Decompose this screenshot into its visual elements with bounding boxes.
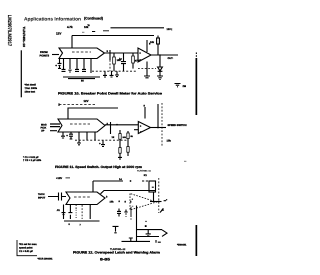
capacitor C8 series input — [48, 193, 66, 201]
wire output fig2 — [151, 127, 167, 129]
wire output drop — [159, 55, 161, 67]
capacitor C13 — [146, 230, 151, 236]
node 12V label — [84, 99, 89, 103]
svg-text:C1 = 0.01 μF: C1 = 0.01 μF — [19, 250, 34, 253]
ground under op-amp — [144, 62, 150, 78]
node dots right of vertical — [145, 221, 146, 222]
wire output — [151, 54, 178, 56]
node right marks — [156, 240, 161, 243]
wire dashed bottom boundary — [75, 139, 128, 141]
wire charge pump output riser fig3 — [101, 191, 157, 194]
svg-text:LM2907/LM2917: LM2907/LM2917 — [6, 15, 12, 47]
wire right vertical — [157, 104, 159, 128]
wire pin stubs under charge pump — [64, 59, 92, 74]
node pin 3 label — [107, 50, 109, 53]
resistor R1 value 470 — [67, 25, 73, 29]
resistor R9 — [117, 209, 121, 217]
capacitor C9 — [62, 213, 66, 215]
capacitor C14 stub — [129, 238, 133, 242]
wire rail drop to charge pump — [71, 36, 73, 49]
wire horn bottom — [137, 236, 160, 238]
wire rail fig3 — [93, 180, 123, 182]
horn LS1 arrow — [162, 230, 167, 237]
wire mid node vertical — [109, 50, 111, 60]
op-amp U1B — [138, 48, 151, 62]
transistor Q1 arrow — [160, 209, 164, 213]
svg-text:INPUT: INPUT — [38, 196, 46, 199]
node output junction — [159, 54, 161, 56]
charge pump U1A — [59, 48, 105, 59]
node output label — [168, 57, 174, 60]
svg-text:12V: 12V — [84, 99, 89, 103]
relay K1 — [144, 174, 148, 177]
svg-text:+: + — [55, 64, 57, 68]
op-amp U3B dashed — [130, 194, 157, 211]
resistor R4 — [113, 53, 115, 57]
wire dashed boundary right segment — [138, 68, 156, 70]
resistor R3 pull-up — [157, 36, 159, 39]
node V+ label 12V — [56, 32, 61, 36]
wire V+ rail — [72, 35, 154, 37]
svg-text:FIGURE 12. Overspeed Latch and: FIGURE 12. Overspeed Latch and Warning A… — [73, 251, 160, 255]
wire pin stubs fig3 — [64, 205, 91, 220]
wire input — [52, 54, 59, 56]
wire op-amp supply drop — [144, 107, 146, 119]
capacitor C11 — [124, 210, 127, 217]
ground output — [157, 76, 163, 80]
svg-text:+12V: +12V — [56, 177, 62, 180]
ground stub C below boundary — [115, 71, 119, 76]
svg-text:···: ··· — [184, 160, 187, 163]
svg-text:SPEED SWITCH: SPEED SWITCH — [168, 124, 187, 127]
capacitor C1 input — [55, 64, 57, 68]
svg-text:POINTS: POINTS — [40, 55, 50, 58]
wire inverting input stub fig2 — [134, 129, 138, 131]
wire pin stubs fig2 — [79, 132, 95, 140]
svg-text:···: ··· — [82, 31, 85, 34]
svg-text:OUT·: OUT· — [168, 57, 174, 60]
ground bus fig3 — [64, 220, 100, 222]
svg-text:10k: 10k — [167, 140, 172, 143]
magnetic pickup PU1 — [41, 123, 47, 132]
ground pin2 — [68, 70, 71, 72]
node half designator — [88, 24, 91, 27]
resistor R6 chain — [119, 130, 121, 134]
svg-text:UP: UP — [41, 129, 45, 132]
diode D1 — [158, 67, 163, 71]
capacitor C5 — [121, 53, 126, 71]
wire dashed boundary fig3 — [158, 178, 160, 213]
node input label POINTS — [40, 51, 50, 58]
svg-text:(Continued): (Continued) — [84, 17, 104, 21]
wire charge pump output — [105, 52, 139, 54]
resistor R5 — [132, 53, 134, 56]
wire relay drop — [153, 192, 155, 202]
node 12V label fig3 — [56, 177, 62, 180]
svg-text:FIGURE 11. Speed Switch. Outpu: FIGURE 11. Speed Switch. Output High at … — [55, 165, 142, 169]
capacitor C4 on pin — [82, 69, 86, 71]
svg-text:4.7k: 4.7k — [67, 25, 73, 29]
wire lower vertical — [136, 206, 138, 242]
resistor R8 value — [167, 140, 172, 143]
wire bottom line — [122, 240, 151, 242]
svg-text:10k: 10k — [84, 26, 89, 29]
svg-text:‡See text: ‡See text — [25, 91, 36, 94]
charge pump U2A — [58, 119, 105, 132]
note table border fig3 — [17, 240, 37, 256]
wire dashed boundary right — [161, 103, 163, 147]
wire output node fig3 — [150, 201, 162, 203]
node output label fig2 — [168, 124, 187, 127]
ground pin fig2 — [77, 140, 81, 145]
wire solid rail — [68, 108, 118, 119]
svg-text:8-85: 8-85 — [100, 258, 110, 262]
change bar upper — [196, 58, 198, 115]
capacitor C7 polarized — [66, 134, 68, 138]
wire rail drop — [92, 181, 94, 192]
wire output stub fig3 — [164, 200, 166, 202]
wire dashed top rail — [59, 104, 95, 106]
svg-text:FIGURE 10. Breaker Point Dwell: FIGURE 10. Breaker Point Dwell Meter for… — [58, 92, 162, 96]
capacitor C12 electrolytic — [113, 226, 119, 232]
wire dashed IC boundary segment — [92, 70, 137, 72]
capacitor C10 — [68, 213, 72, 219]
wire op-amp supply — [146, 40, 148, 52]
op-amp U2B — [138, 122, 150, 134]
ground bus — [63, 77, 100, 79]
svg-text:10k: 10k — [110, 201, 115, 204]
node plus mark — [99, 142, 101, 146]
wire upper rail fig1 — [82, 31, 85, 34]
wire charge pump output fig2 — [105, 124, 138, 126]
resistor R7 chain — [127, 131, 129, 133]
capacitor C6 to ground — [61, 132, 65, 138]
node figure tag fig3 — [110, 248, 126, 251]
svg-text:*2N4441: *2N4441 — [177, 244, 187, 247]
ground stub B below boundary — [110, 71, 114, 77]
wire mid vertical fig2 — [110, 122, 112, 134]
change bar lower — [196, 225, 198, 256]
ground stub A below boundary — [103, 71, 107, 77]
node labels row fig3 — [110, 200, 133, 204]
svg-text:Applications Information: Applications Information — [24, 17, 81, 23]
svg-text:TL/H/7451–10: TL/H/7451–10 — [22, 27, 26, 48]
node input label fig3 — [38, 193, 46, 199]
ground mid fig2 — [101, 140, 105, 146]
wire inverting stub fig3 — [130, 207, 132, 217]
svg-text:10k: 10k — [150, 41, 155, 44]
svg-text:*SCR 2N4441: *SCR 2N4441 — [38, 257, 54, 260]
svg-text:TL/H/7451–11: TL/H/7451–11 — [137, 169, 152, 172]
capacitor C3 on pin — [75, 69, 79, 71]
resistor R2 value 10k — [84, 26, 89, 29]
svg-text:† C2 = 1 μF ±2%: † C2 = 1 μF ±2% — [23, 159, 42, 162]
svg-text:12V: 12V — [56, 32, 61, 36]
charge pump U3A — [66, 192, 105, 205]
capacitor C2 on pin — [62, 69, 66, 71]
svg-text:12V·¦: 12V·¦ — [167, 28, 173, 31]
change bar left fig1 — [21, 50, 22, 97]
ground meter return — [175, 84, 181, 87]
svg-text:ZM: ZM — [183, 85, 186, 88]
node pin label fig3 — [106, 196, 108, 199]
wire horn top — [137, 229, 163, 231]
